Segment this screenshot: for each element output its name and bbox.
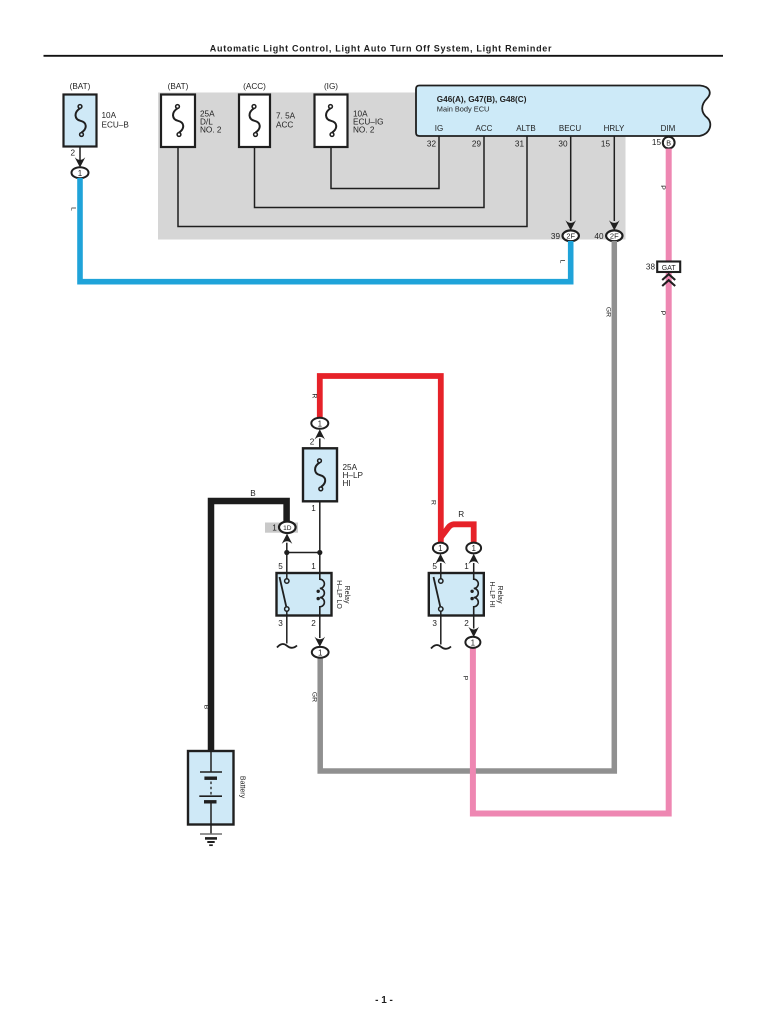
svg-text:B: B (203, 705, 210, 710)
svg-text:BECU: BECU (559, 124, 581, 133)
ground (battery) (210, 825, 212, 835)
svg-text:(IG): (IG) (324, 82, 338, 91)
svg-text:1: 1 (471, 544, 476, 553)
svg-text:2F: 2F (566, 232, 575, 241)
svg-text:R: R (458, 510, 464, 519)
oval connector 1 (HI relay pin5 feed) (433, 543, 448, 554)
junction node right (317, 550, 322, 555)
oval connector 1 (HI relay pin2) (465, 637, 480, 648)
wire fuse F1 to connector (79, 147, 81, 161)
svg-text:(BAT): (BAT) (168, 82, 189, 91)
wire to HI relay pin 1 (473, 563, 475, 573)
relay K2 coil (474, 573, 479, 616)
svg-text:IG: IG (435, 124, 443, 133)
svg-text:30: 30 (558, 140, 568, 149)
svg-text:1: 1 (272, 524, 277, 533)
svg-text:2: 2 (310, 438, 315, 447)
wire junction to LO relay pin 1 (319, 553, 321, 574)
svg-text:DIM: DIM (661, 124, 676, 133)
svg-text:15: 15 (601, 140, 611, 149)
svg-text:1: 1 (318, 649, 323, 658)
svg-text:3: 3 (278, 619, 283, 628)
junction node left (284, 550, 289, 555)
oval connector 2F (40) (606, 230, 622, 241)
wire ECU pin HRLY down (613, 136, 615, 221)
oval connector 2F (39) (563, 230, 579, 241)
svg-text:7. 5A: 7. 5A (276, 112, 296, 121)
wire junction to LO relay pin 5 (286, 553, 288, 574)
svg-text:1: 1 (311, 504, 316, 513)
svg-text:- 1 -: - 1 - (375, 995, 393, 1006)
svg-text:1: 1 (464, 562, 469, 571)
wire HI relay pin 2 down (473, 616, 475, 629)
svg-text:2F: 2F (610, 232, 619, 241)
wire LO relay pin 3 to ground squiggle (286, 616, 288, 644)
svg-text:38: 38 (646, 263, 656, 272)
svg-text:10A: 10A (102, 111, 117, 120)
wire LO relay pin 2 down (319, 616, 321, 639)
svg-text:1: 1 (438, 544, 443, 553)
svg-text:Relay: Relay (496, 586, 503, 604)
svg-text:39: 39 (551, 232, 561, 241)
arrow up into oval 1 (315, 429, 326, 439)
svg-text:GAT: GAT (662, 265, 677, 272)
squiggle (LO relay ground) (277, 644, 297, 648)
svg-text:32: 32 (427, 140, 437, 149)
arrow up below oval (pin5) (435, 554, 446, 564)
battery (188, 751, 234, 825)
title underline (44, 55, 724, 57)
wire R (red) branch to HI relay pin1 (441, 524, 474, 543)
highlight behind connector 1D (265, 523, 298, 533)
svg-text:1: 1 (471, 639, 476, 648)
arrow into oval 1 (75, 157, 86, 167)
svg-text:(BAT): (BAT) (70, 82, 91, 91)
svg-text:L: L (559, 260, 566, 264)
squiggle (HI relay ground) (431, 645, 451, 649)
svg-text:29: 29 (472, 140, 482, 149)
wire fuse F4 to ECU pin IG (331, 136, 439, 189)
svg-text:GR: GR (605, 307, 612, 317)
arrow up into oval 1D (282, 534, 293, 544)
wire fuse F3 to ECU pin ACC (255, 136, 485, 208)
svg-text:H–LP LO: H–LP LO (335, 580, 342, 609)
svg-text:P: P (659, 185, 666, 190)
fuse F5 25A H-LP HI (303, 448, 337, 501)
wire GR (gray) HRLY 40 to LO relay pin2 (320, 241, 614, 771)
wire 1D to junction (286, 543, 288, 553)
wire R (red) fuse F5 to HI relay (320, 376, 441, 543)
svg-text:Battery: Battery (239, 776, 246, 799)
svg-text:5: 5 (432, 562, 437, 571)
svg-text:B: B (250, 489, 256, 498)
wire HI relay pin 3 to ground squiggle (440, 616, 442, 645)
relay K1 coil (320, 573, 325, 616)
oval connector 1 (fuse F1) (72, 167, 89, 178)
svg-text:Automatic Light Control, Light: Automatic Light Control, Light Auto Turn… (210, 44, 552, 54)
wire arrow to fuse F5 (319, 438, 321, 448)
oval connector 1 (above fuse F5) (311, 418, 328, 429)
svg-text:3: 3 (432, 619, 437, 628)
wire P (pink) DIM to HI relay pin2 (473, 149, 669, 814)
oval connector 1 (LO relay pin2) (312, 647, 329, 658)
svg-text:2: 2 (70, 149, 75, 158)
svg-text:R: R (430, 500, 437, 505)
arrow into oval 2F (40) (609, 220, 620, 230)
oval connector 1 (HI relay pin1 feed) (466, 543, 481, 554)
svg-text:1: 1 (318, 420, 323, 429)
svg-text:HRLY: HRLY (604, 124, 625, 133)
svg-text:HI: HI (343, 479, 351, 488)
svg-text:NO. 2: NO. 2 (353, 126, 375, 135)
wire fuse F5 to junction (319, 501, 321, 552)
chevron marks below GAT (662, 274, 675, 280)
wire B (black) battery feed (211, 501, 287, 751)
svg-text:ECU–B: ECU–B (102, 121, 130, 130)
arrow up below oval (pin1) (468, 554, 479, 564)
svg-text:R: R (311, 394, 318, 399)
wire to HI relay pin 5 (440, 563, 442, 573)
arrow into oval 2F (39) (565, 220, 576, 230)
svg-text:ACC: ACC (276, 121, 293, 130)
svg-text:Main Body ECU: Main Body ECU (437, 105, 490, 114)
svg-text:G46(A), G47(B), G48(C): G46(A), G47(B), G48(C) (437, 95, 527, 104)
arrow into oval (HI pin2) (468, 627, 479, 637)
svg-text:40: 40 (594, 232, 604, 241)
svg-text:NO. 2: NO. 2 (200, 126, 222, 135)
svg-text:GR: GR (311, 692, 318, 702)
oval connector 1D (279, 522, 296, 534)
svg-text:Relay: Relay (343, 586, 350, 604)
arrow into oval (LO pin2) (315, 637, 326, 647)
svg-text:ACC: ACC (476, 124, 493, 133)
svg-text:2: 2 (464, 619, 469, 628)
svg-text:(ACC): (ACC) (243, 82, 266, 91)
ECU connector box U1 (Main Body ECU) (416, 86, 710, 137)
svg-text:1D: 1D (283, 525, 292, 532)
svg-text:31: 31 (515, 140, 525, 149)
wire fuse F2 to ECU pin ALTB (178, 136, 527, 227)
svg-text:H–LP HI: H–LP HI (488, 581, 495, 607)
svg-text:1: 1 (311, 562, 316, 571)
wire junction bridge (287, 552, 320, 554)
svg-text:2: 2 (311, 619, 316, 628)
svg-text:P: P (659, 311, 666, 316)
svg-text:15: 15 (652, 138, 662, 147)
gray harness panel (158, 93, 626, 240)
svg-text:ALTB: ALTB (516, 124, 535, 133)
svg-text:1: 1 (78, 169, 83, 178)
svg-text:L: L (70, 207, 77, 211)
wire ECU pin BECU down (570, 136, 572, 221)
svg-text:5: 5 (278, 562, 283, 571)
connector circle B (DIM) (663, 137, 675, 149)
svg-text:P: P (462, 676, 469, 681)
wire L (cyan) fuse F1 to BECU 39 (80, 178, 571, 282)
svg-text:B: B (666, 139, 671, 148)
